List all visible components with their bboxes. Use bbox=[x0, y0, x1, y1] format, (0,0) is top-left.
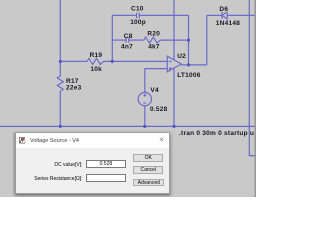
svg-text:1N4148: 1N4148 bbox=[216, 20, 240, 27]
op-amp U1 triangle bbox=[167, 56, 181, 72]
wire feedback vertical x=188.5 bbox=[188, 15, 190, 65]
resistor R17 bbox=[57, 76, 63, 91]
window right border bbox=[255, 0, 257, 197]
node junction output bbox=[187, 63, 190, 66]
V4 plus mark bbox=[143, 94, 146, 97]
capacitor C8 bbox=[126, 37, 129, 43]
svg-text:.tran 0 30m 0 startup uic: .tran 0 30m 0 startup uic bbox=[179, 130, 256, 137]
svg-text:10k: 10k bbox=[90, 66, 102, 73]
wire R19 row (inverting input net) bbox=[60, 60, 87, 62]
wire diode row right bbox=[227, 14, 256, 16]
svg-text:C8: C8 bbox=[124, 33, 133, 40]
node junction rail left bbox=[59, 125, 62, 128]
resistor R19 bbox=[87, 58, 104, 64]
wire left vertical net IN bbox=[59, 0, 61, 76]
dialog input DC value 0.528 bbox=[86, 160, 127, 168]
resistor R20 bbox=[144, 37, 161, 43]
dialog label Series Resistance bbox=[26, 176, 83, 182]
svg-text:R20: R20 bbox=[147, 31, 160, 38]
dialog button OK bbox=[133, 154, 163, 162]
node junction rail V4 bbox=[143, 125, 146, 128]
node junction C8 row feedback bbox=[187, 39, 190, 42]
wire C8 row left bbox=[112, 39, 126, 41]
wire diode row left bbox=[207, 14, 222, 16]
node junction rail supply bbox=[172, 125, 175, 128]
dialog input Series Resistance bbox=[86, 174, 127, 183]
dialog title text bbox=[30, 138, 79, 144]
op-amp minus mark bbox=[169, 60, 172, 62]
wire op-amp output bbox=[181, 64, 207, 66]
voltage source V4 circle bbox=[138, 92, 151, 105]
wire op-amp V- supply down bbox=[173, 68, 175, 126]
svg-text:V4: V4 bbox=[150, 87, 159, 94]
wire output to diode vertical bbox=[206, 15, 208, 65]
wire plus input to V4 bbox=[145, 69, 168, 93]
dialog icon bbox=[19, 137, 26, 144]
wire R19 to op-amp minus input bbox=[104, 60, 168, 62]
wire R20 to feedback node bbox=[160, 39, 188, 41]
svg-text:D6: D6 bbox=[219, 6, 228, 13]
dialog button Cancel bbox=[133, 166, 163, 174]
node junction R19 right bbox=[111, 60, 114, 63]
svg-text:22e3: 22e3 bbox=[66, 85, 82, 92]
wire V4 bottom to rail bbox=[144, 106, 146, 127]
capacitor C10 bbox=[137, 13, 140, 19]
svg-text:0.528: 0.528 bbox=[150, 106, 168, 113]
wire C8 to R20 bbox=[129, 39, 144, 41]
svg-text:100p: 100p bbox=[130, 19, 146, 26]
dialog button Advanced bbox=[133, 179, 164, 187]
dialog Voltage Source - V4 bbox=[15, 132, 170, 194]
dialog label DC value bbox=[36, 162, 83, 168]
dialog close button bbox=[159, 136, 165, 144]
wire op-amp V+ supply up bbox=[173, 0, 175, 60]
dialog title bar bbox=[16, 133, 169, 148]
svg-text:4n7: 4n7 bbox=[121, 44, 133, 51]
wire below R17 bbox=[59, 91, 61, 126]
node junction R19 left bbox=[59, 60, 62, 63]
svg-text:R19: R19 bbox=[90, 52, 103, 59]
diode D6 bbox=[222, 12, 227, 19]
wire C10 row left bbox=[112, 14, 136, 16]
svg-text:4k7: 4k7 bbox=[148, 44, 160, 51]
wire ground rail bbox=[0, 125, 256, 127]
V4 minus mark bbox=[143, 102, 146, 104]
svg-text:U2: U2 bbox=[177, 53, 186, 60]
op-amp plus mark bbox=[169, 67, 172, 70]
wire C10 row right bbox=[139, 14, 188, 16]
wire right vertical x=249.3 bbox=[249, 0, 256, 156]
wire vertical x=112 C10/C8 left leg bbox=[111, 15, 113, 61]
svg-text:LT1006: LT1006 bbox=[177, 72, 201, 79]
svg-text:C10: C10 bbox=[131, 6, 144, 13]
